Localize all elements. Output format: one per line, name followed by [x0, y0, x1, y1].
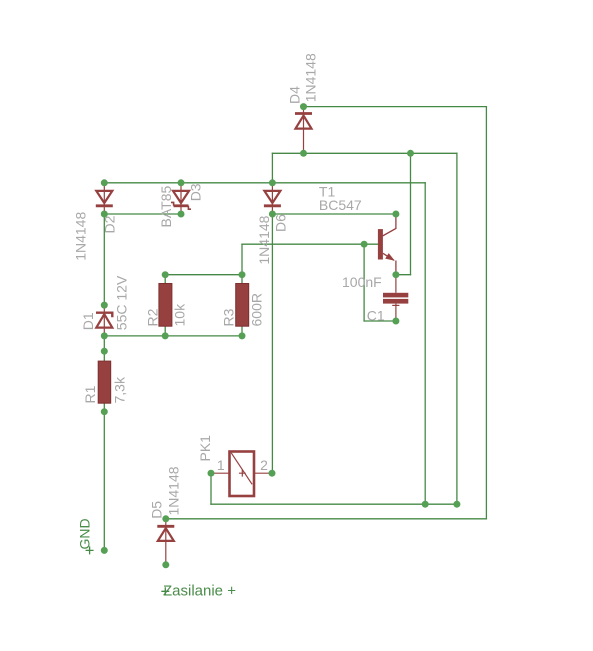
svg-text:1N4148: 1N4148 — [303, 53, 319, 102]
svg-text:R3: R3 — [221, 308, 237, 326]
svg-text:600R: 600R — [249, 293, 265, 326]
svg-text:D3: D3 — [188, 183, 204, 201]
svg-text:D4: D4 — [287, 86, 303, 104]
svg-text:7,3k: 7,3k — [112, 376, 128, 403]
svg-text:10k: 10k — [172, 303, 188, 327]
svg-text:GND: GND — [77, 518, 93, 549]
svg-text:BC547: BC547 — [319, 197, 362, 213]
svg-text:1N4148: 1N4148 — [72, 212, 88, 261]
svg-text:PK1: PK1 — [197, 435, 213, 462]
svg-text:1: 1 — [217, 457, 225, 473]
svg-text:R2: R2 — [145, 308, 161, 326]
svg-text:55C 12V: 55C 12V — [114, 275, 130, 330]
svg-text:BAT85: BAT85 — [158, 186, 174, 228]
svg-text:D2: D2 — [101, 215, 117, 233]
svg-text:1N4148: 1N4148 — [165, 466, 181, 515]
svg-text:D5: D5 — [149, 501, 165, 519]
svg-text:C1: C1 — [367, 307, 385, 323]
svg-text:D1: D1 — [80, 312, 96, 330]
svg-text:2: 2 — [260, 457, 268, 473]
svg-text:100nF: 100nF — [342, 274, 382, 290]
svg-text:R1: R1 — [82, 385, 98, 403]
svg-text:Zasilanie +: Zasilanie + — [163, 583, 236, 600]
svg-text:1N4148: 1N4148 — [256, 215, 272, 264]
svg-text:D6: D6 — [273, 214, 289, 232]
